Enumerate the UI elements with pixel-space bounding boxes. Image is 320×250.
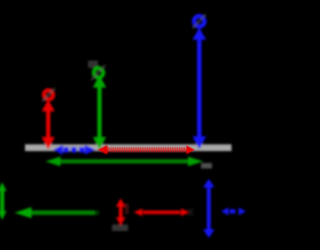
legend red distance arrow (finely dashed) xyxy=(134,209,190,217)
green height arrow xyxy=(93,75,106,150)
legend green height-difference arrow (left edge) xyxy=(0,182,7,219)
blue label (slashed-circle symbol) xyxy=(193,15,206,29)
faint glyph smudge right of legend red vertical xyxy=(125,204,129,215)
legend red height-difference arrow xyxy=(116,198,126,225)
legend green distance arrow xyxy=(15,207,99,218)
faint glyph smudge near green label xyxy=(88,61,98,69)
green label (slashed-circle symbol) xyxy=(91,65,105,80)
legend blue distance arrow (dashed) xyxy=(221,208,246,216)
blue height arrow xyxy=(192,28,206,149)
legend blue height-difference arrow xyxy=(203,179,215,238)
red label (slashed-circle symbol) xyxy=(42,88,55,101)
faint cross glyph at red arrow tip xyxy=(188,208,194,216)
faint glyph smudge below axis right end xyxy=(201,163,212,169)
red dashed distance arrow (between green and blue feet) xyxy=(98,145,195,155)
x-axis baseline xyxy=(25,144,232,151)
blue dashed distance arrow b (between red and green feet) xyxy=(53,145,95,155)
green total distance arrow (red foot to blue foot) xyxy=(46,157,204,167)
red height arrow xyxy=(42,100,55,150)
faint glyph smudge below legend red arrow xyxy=(112,225,128,232)
